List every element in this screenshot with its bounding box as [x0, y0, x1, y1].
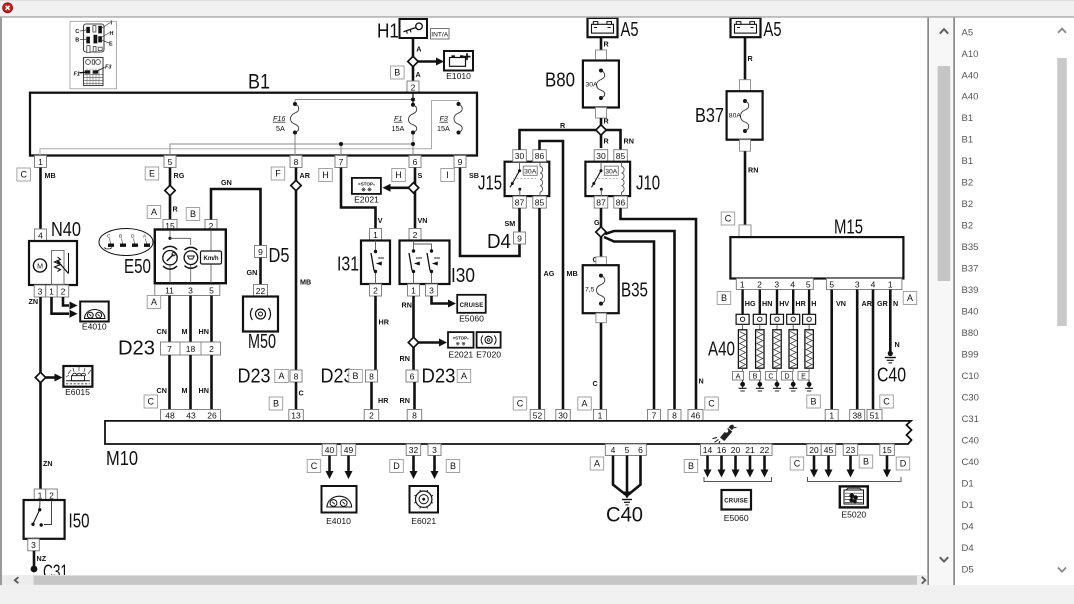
D23 connector A pin 6 [406, 370, 418, 382]
svg-text:4: 4 [611, 445, 616, 455]
svg-text:3: 3 [774, 279, 779, 289]
svg-text:B: B [352, 371, 358, 381]
svg-text:6: 6 [638, 445, 643, 455]
cruise control unit E5060 [722, 490, 752, 523]
svg-text:B: B [75, 38, 79, 44]
arrow to E2021/E7020 [414, 341, 442, 344]
svg-text:GR: GR [877, 299, 889, 308]
connector B [186, 208, 200, 221]
svg-text:30A: 30A [586, 82, 599, 89]
svg-text:4: 4 [871, 279, 876, 289]
branch to M10-7 [604, 237, 654, 410]
wire HR to M10-2 [370, 382, 373, 410]
branch RN to J10-85 [601, 130, 621, 150]
svg-text:A: A [594, 459, 600, 469]
connector C [307, 460, 321, 473]
svg-text:R: R [748, 54, 754, 63]
svg-text:J10: J10 [636, 173, 660, 195]
bracket [808, 477, 902, 482]
splice mark on M10 [713, 425, 737, 445]
svg-text:A10: A10 [962, 49, 979, 60]
svg-text:B: B [394, 68, 400, 78]
svg-text:2: 2 [413, 230, 418, 240]
B80 bottom terminal [596, 108, 607, 119]
svg-text:5: 5 [829, 279, 834, 289]
INT/A code box [431, 29, 450, 40]
horizontal scrollbar [2, 575, 927, 585]
battery A5 [731, 18, 782, 41]
svg-text:H1: H1 [377, 21, 399, 43]
J10 pins 87 86 [594, 196, 608, 208]
svg-text:AR: AR [862, 299, 873, 308]
svg-text:E: E [149, 169, 155, 179]
B1 pin 1 [35, 156, 47, 168]
svg-text:A: A [416, 45, 421, 54]
svg-text:B: B [450, 461, 456, 471]
svg-text:B: B [863, 457, 869, 467]
battery A5 [588, 18, 639, 41]
wire M E50-3 [189, 296, 192, 343]
svg-text:B37: B37 [695, 105, 724, 127]
svg-text:AR: AR [300, 171, 311, 180]
svg-text:D1: D1 [962, 500, 974, 511]
svg-text:A: A [461, 371, 467, 381]
svg-text:11: 11 [165, 285, 174, 295]
wire RN I30-1 down [412, 296, 415, 370]
wire AR M15-3 to M10-38 [856, 290, 859, 410]
svg-text:D4: D4 [962, 521, 974, 532]
node on R wire [596, 125, 606, 135]
svg-text:E4010: E4010 [82, 322, 107, 332]
svg-text:4: 4 [38, 230, 43, 240]
svg-text:H: H [811, 299, 816, 308]
I30 pin 2 [409, 229, 421, 241]
svg-text:9: 9 [517, 233, 522, 243]
svg-text:CN: CN [157, 386, 167, 395]
svg-text:B99: B99 [962, 350, 979, 361]
relay J15 [478, 162, 549, 196]
svg-text:❋ ❋: ❋ ❋ [456, 341, 466, 347]
wire G J10-87 to node [600, 208, 603, 266]
svg-text:I31: I31 [337, 254, 359, 276]
svg-text:A: A [151, 297, 157, 307]
svg-text:B: B [810, 397, 816, 407]
ground wires C40 [613, 456, 626, 495]
fuse B35 7.5A [583, 265, 648, 313]
svg-text:HV: HV [779, 299, 789, 308]
connector C [721, 212, 735, 225]
svg-text:B35: B35 [621, 280, 648, 302]
svg-text:85: 85 [616, 151, 626, 161]
svg-text:A5: A5 [764, 19, 782, 41]
svg-text:14: 14 [703, 445, 713, 455]
svg-text:86: 86 [535, 151, 545, 161]
svg-text:❋ ❋: ❋ ❋ [361, 188, 372, 194]
canvas [2, 18, 927, 575]
I31 pin 2 [370, 284, 382, 296]
wire R A5 to B37 [744, 37, 747, 79]
M10 pins 52 30 [530, 410, 545, 422]
svg-text:M15: M15 [834, 217, 863, 239]
svg-text:D5: D5 [962, 564, 974, 575]
climate control unit M15 [730, 217, 903, 279]
svg-text:86: 86 [616, 198, 626, 208]
wire ZN N40-3 down [39, 297, 42, 373]
wire ZN to I50 [39, 383, 42, 490]
svg-text:HN: HN [199, 327, 209, 336]
svg-text:E50: E50 [124, 256, 151, 278]
svg-text:A40: A40 [962, 92, 979, 103]
svg-text:MB: MB [300, 278, 311, 287]
M10 pins 1 38 51 [825, 410, 838, 422]
svg-text:2: 2 [209, 344, 214, 354]
M10 pin 23 [843, 444, 858, 456]
svg-text:HN: HN [199, 386, 209, 395]
node on H1 wire [408, 56, 418, 66]
svg-text:B: B [753, 372, 758, 381]
svg-text:A: A [151, 207, 157, 217]
svg-text:C: C [794, 459, 801, 469]
I50 pin 3 [28, 539, 40, 551]
svg-text:C: C [768, 372, 773, 381]
svg-text:B80: B80 [962, 328, 979, 339]
connector C [880, 395, 894, 408]
list scrollbar [1057, 29, 1067, 572]
close button [3, 3, 13, 13]
svg-text:3: 3 [432, 445, 437, 455]
svg-text:1: 1 [740, 279, 745, 289]
M15 pins 5 3 4 1 [826, 279, 902, 290]
svg-text:E5060: E5060 [459, 314, 484, 324]
connector B [269, 397, 283, 410]
svg-text:RN: RN [748, 166, 758, 175]
svg-text:F3: F3 [440, 114, 448, 123]
svg-text:D: D [393, 461, 400, 471]
svg-text:20: 20 [809, 445, 819, 455]
B1 internal wiring [40, 93, 459, 156]
svg-text:C30: C30 [962, 393, 979, 404]
wire AR/MB B1-8 to D23 [295, 168, 298, 371]
connector C [17, 168, 31, 181]
svg-text:R: R [173, 205, 179, 214]
svg-text:8: 8 [294, 371, 299, 381]
svg-text:B1: B1 [248, 71, 270, 94]
J15 pins 30 86 87 85 [513, 150, 527, 162]
svg-text:E6015: E6015 [65, 387, 90, 397]
node on RG wire [165, 185, 175, 195]
svg-text:C31: C31 [962, 414, 979, 425]
svg-text:VN: VN [418, 216, 428, 225]
M10 pins 32 3 [406, 444, 421, 456]
svg-text:ZN: ZN [43, 459, 53, 468]
svg-text:E: E [109, 42, 113, 48]
wire GR M15-4 to M10-51 [872, 290, 875, 410]
B1 pin 8 [290, 156, 302, 168]
D5 pin 22 [254, 285, 268, 297]
B35 bottom terminal [596, 313, 607, 323]
connector pin legend ellipse [99, 229, 153, 256]
connector D [390, 460, 404, 473]
arrows to E5020 [813, 456, 816, 472]
svg-text:2: 2 [373, 285, 378, 295]
svg-text:E4010: E4010 [326, 516, 351, 526]
svg-text:M: M [182, 327, 188, 336]
svg-text:F1: F1 [74, 72, 80, 78]
tail lamp E4010 [322, 486, 357, 526]
svg-text:A40: A40 [708, 339, 735, 361]
connector C [513, 397, 527, 410]
M10 pins 48 43 26 [161, 410, 221, 421]
svg-text:SM: SM [505, 219, 516, 228]
connector letter B [391, 66, 405, 79]
svg-text:B40: B40 [962, 307, 979, 318]
wire S/VN B1-6 to I30 [414, 168, 417, 229]
branch to M10-8 [605, 231, 675, 410]
svg-text:M50: M50 [248, 331, 276, 353]
cruise control switch I30 [400, 241, 476, 288]
A40 connector letters A-E with ground [733, 372, 814, 392]
N40 pin 4 [35, 229, 47, 241]
svg-text:21: 21 [745, 445, 755, 455]
svg-text:5: 5 [209, 285, 214, 295]
connector B [717, 292, 731, 305]
wire RG B1-5 to E50 [169, 168, 172, 221]
svg-text:4: 4 [790, 279, 795, 289]
wire C B35 to M10-1 [600, 323, 603, 410]
svg-text:30A: 30A [524, 169, 537, 176]
svg-text:E2021: E2021 [448, 350, 473, 360]
svg-text:2: 2 [369, 410, 374, 420]
svg-text:3: 3 [429, 285, 434, 295]
svg-text:A: A [581, 399, 587, 409]
branch N40-2 to E4010 [63, 297, 69, 306]
svg-text:40: 40 [325, 445, 335, 455]
fuse F1 15A [392, 103, 417, 135]
svg-text:B2: B2 [962, 199, 974, 210]
M10 pins 1 7 8 46 [594, 410, 607, 422]
svg-text:RN: RN [402, 301, 412, 310]
node on AR wire [291, 180, 301, 190]
fuse B80 30A [545, 61, 619, 108]
M10 pin 15 [880, 444, 895, 456]
svg-text:RN: RN [400, 396, 410, 405]
E50 pin 2 [205, 220, 217, 232]
svg-text:30A: 30A [605, 169, 618, 176]
control unit E5020 [840, 485, 868, 520]
E50 pin 15 [163, 220, 177, 232]
connector C [144, 395, 158, 408]
connector B [684, 460, 698, 473]
svg-text:N40: N40 [51, 219, 81, 241]
svg-text:7: 7 [167, 344, 172, 354]
brake lamp E7020 [476, 332, 501, 359]
wire VN M15-5 to M10-1 [830, 290, 833, 410]
B80 top terminal [596, 50, 607, 61]
svg-text:7,5: 7,5 [585, 287, 595, 294]
connector H [392, 169, 406, 182]
svg-text:26: 26 [207, 410, 217, 420]
wire RN to M10-8 [413, 382, 416, 410]
connector F [271, 167, 285, 180]
wire N M15-1 to ground C40 [889, 290, 892, 353]
svg-text:HR: HR [379, 318, 390, 327]
svg-text:5: 5 [625, 445, 630, 455]
svg-text:20: 20 [731, 445, 741, 455]
J10 pins 30 85 [594, 150, 608, 162]
svg-text:51: 51 [870, 410, 880, 420]
svg-text:3: 3 [855, 279, 860, 289]
svg-text:RN: RN [400, 354, 410, 363]
svg-text:N: N [895, 340, 900, 349]
stop lamps E2021 [448, 332, 474, 359]
node G/C [596, 227, 606, 237]
svg-text:RG: RG [174, 171, 185, 180]
cruise actuator E5060 [457, 295, 486, 324]
svg-text:R: R [604, 137, 610, 146]
svg-text:E: E [801, 372, 806, 381]
svg-text:E7020: E7020 [476, 350, 501, 360]
svg-text:C: C [75, 29, 79, 35]
relay J10 [585, 162, 660, 196]
svg-text:B1: B1 [962, 156, 974, 167]
connector B [859, 455, 873, 468]
svg-text:CN: CN [157, 327, 167, 336]
svg-text:22: 22 [760, 445, 770, 455]
I31 pin 1 [370, 229, 382, 241]
svg-text:E5060: E5060 [724, 513, 749, 523]
svg-text:HN: HN [762, 299, 772, 308]
svg-text:87: 87 [515, 198, 525, 208]
svg-text:E6021: E6021 [411, 516, 436, 526]
svg-text:M: M [182, 386, 188, 395]
svg-text:9: 9 [458, 157, 463, 167]
svg-text:48: 48 [165, 410, 175, 420]
wire AG J15-85 to M10-52 [538, 208, 541, 409]
svg-text:D: D [900, 459, 907, 469]
svg-text:2: 2 [61, 286, 66, 296]
svg-text:C40: C40 [606, 504, 643, 527]
svg-text:C40: C40 [877, 365, 906, 387]
wire HN E50-5 [210, 296, 213, 343]
battery feed E1010 [444, 51, 473, 81]
svg-text:N: N [699, 377, 704, 386]
svg-text:46: 46 [691, 410, 701, 420]
connector C [790, 457, 804, 470]
arrows to E5060 [706, 456, 709, 472]
svg-text:80A: 80A [729, 113, 742, 120]
svg-text:I30: I30 [451, 265, 475, 287]
arrow from S node to E2021 [389, 187, 410, 190]
svg-text:15A: 15A [437, 124, 450, 133]
M10 pin 2 [364, 410, 379, 422]
svg-text:˃STOP₀: ˃STOP₀ [453, 335, 469, 340]
svg-text:HG: HG [745, 299, 756, 308]
svg-text:GN: GN [247, 268, 258, 277]
svg-text:2: 2 [49, 490, 54, 500]
ignition switch H1 [377, 19, 427, 43]
svg-text:A: A [416, 70, 421, 79]
svg-text:H: H [110, 31, 114, 37]
svg-text:D: D [784, 372, 789, 381]
connector B [807, 395, 821, 408]
instrument cluster E50 [124, 230, 226, 284]
svg-text:1: 1 [888, 279, 893, 289]
svg-text:B: B [190, 209, 196, 219]
ground C40 [888, 351, 893, 356]
svg-text:D4: D4 [962, 543, 974, 554]
tail lamp E4010 [80, 302, 109, 332]
svg-text:ZN: ZN [29, 297, 39, 306]
wire NZ to C31 [33, 551, 36, 569]
M10 pin 8 [407, 410, 422, 422]
svg-text:8: 8 [412, 410, 417, 420]
svg-text:8: 8 [672, 410, 677, 420]
wire R A5 to B80 [600, 37, 603, 51]
svg-text:S: S [418, 171, 423, 180]
svg-text:30: 30 [558, 410, 568, 420]
title bar [0, 0, 1074, 17]
svg-text:F1: F1 [394, 114, 402, 123]
svg-text:RN: RN [624, 137, 634, 146]
svg-text:8: 8 [294, 157, 299, 167]
pin 2 of B1 [407, 81, 419, 93]
wire RN B37 to M15 [744, 151, 747, 225]
connector A [903, 292, 917, 305]
svg-text:C10: C10 [962, 371, 979, 382]
wire MB B1-1 to N40 [39, 168, 42, 230]
svg-text:B: B [721, 293, 727, 303]
bracket [704, 477, 772, 482]
arrows to E4010 [328, 456, 331, 474]
svg-text:Km/h: Km/h [204, 256, 219, 262]
brake pedal switch I31 [337, 241, 390, 285]
wires to M10 [168, 355, 171, 410]
svg-text:C: C [883, 397, 890, 407]
svg-text:5A: 5A [276, 124, 285, 133]
B1 pin 6 [409, 156, 421, 168]
M10 pins 14 16 20 21 22 [701, 444, 773, 456]
svg-text:E1010: E1010 [446, 71, 471, 81]
svg-text:22: 22 [256, 286, 266, 296]
svg-text:D23: D23 [422, 366, 456, 388]
svg-text:M: M [852, 485, 855, 489]
wire SM J15-87 to D4 [518, 208, 521, 232]
svg-text:45: 45 [824, 445, 834, 455]
svg-text:˃STOP₀: ˃STOP₀ [358, 182, 375, 187]
M10 pins 4 5 6 [605, 444, 646, 456]
svg-text:2: 2 [411, 82, 416, 92]
svg-text:9: 9 [258, 247, 263, 257]
arrow to E1010 [413, 60, 438, 63]
svg-text:B80: B80 [545, 70, 575, 92]
I30 pins 1 3 [408, 284, 420, 296]
svg-text:B2: B2 [962, 221, 974, 232]
svg-text:15A: 15A [392, 124, 405, 133]
svg-text:B: B [688, 461, 694, 471]
svg-text:E2021: E2021 [354, 195, 379, 205]
svg-text:INT/A: INT/A [431, 31, 448, 38]
svg-text:F: F [275, 169, 281, 179]
svg-text:A40: A40 [962, 70, 979, 81]
svg-text:M: M [37, 264, 43, 271]
M15 inlet terminal [739, 225, 751, 237]
svg-text:I50: I50 [69, 511, 90, 533]
node on RN wire [408, 337, 418, 347]
fuse B37 80A [695, 91, 763, 140]
connector C [705, 397, 719, 410]
svg-text:R: R [604, 40, 610, 49]
wire V B1-7 to I31 [341, 168, 376, 229]
